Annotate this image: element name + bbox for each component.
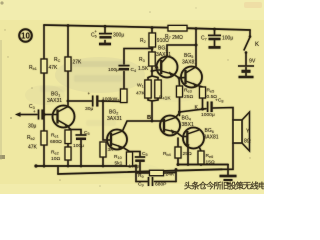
pot W1 47K xyxy=(145,80,151,98)
resistor R7 2M horizontal xyxy=(168,25,187,31)
resistor Re3 25 xyxy=(177,86,183,97)
resistor Rb1 47K xyxy=(41,59,47,73)
svg-text:680Ω: 680Ω xyxy=(50,139,62,145)
resistor R5 3K xyxy=(100,142,106,157)
capacitor C3 30u input xyxy=(39,110,43,120)
wire R5 to bus1 xyxy=(102,157,104,166)
wire Wout2 xyxy=(178,164,228,166)
svg-text:25Ω: 25Ω xyxy=(183,151,192,157)
dark corner speck xyxy=(0,155,5,159)
wire C7 stub xyxy=(214,29,216,35)
svg-text:25Ω: 25Ω xyxy=(184,94,193,100)
svg-text:100μ: 100μ xyxy=(73,143,84,149)
wire ground stub xyxy=(227,165,229,176)
paper background xyxy=(0,0,264,194)
capacitor C7 100u xyxy=(208,35,221,47)
wire Rc column x=68 xyxy=(67,26,69,57)
wire BG1 emitter xyxy=(68,126,70,130)
resistor Rb4 25 xyxy=(175,147,181,158)
wire BG3 emitter to BG5 base xyxy=(174,75,179,79)
svg-text:30μ: 30μ xyxy=(28,124,37,130)
svg-text:K: K xyxy=(195,105,199,111)
paper stains xyxy=(55,57,145,93)
scan speckles xyxy=(4,7,250,187)
wire Rb4 xyxy=(177,138,179,147)
wire A branch split W1 R4 xyxy=(148,76,152,80)
wire battery top xyxy=(245,53,247,66)
svg-text:3AX31: 3AX31 xyxy=(47,98,62,104)
wire BG3 base stub xyxy=(152,70,157,71)
resistor R3 1.5K xyxy=(149,52,155,66)
svg-text:47K: 47K xyxy=(136,91,145,97)
wire C4 to pot W2 xyxy=(123,72,125,90)
svg-text:15Ω: 15Ω xyxy=(206,160,215,166)
resistor R9 24K horizontal feedback xyxy=(150,170,164,175)
svg-text:3AX81: 3AX81 xyxy=(204,135,219,141)
wire pot W2 to HW1 xyxy=(123,101,125,104)
transistor BG6 xyxy=(183,128,204,149)
svg-text:10: 10 xyxy=(21,32,30,41)
svg-text:3AX81: 3AX81 xyxy=(182,60,197,66)
transistor BG5 xyxy=(181,67,202,88)
wire input xyxy=(20,114,37,116)
svg-text:K: K xyxy=(255,42,259,48)
svg-text:R7 2MΩ: R7 2MΩ xyxy=(165,34,183,41)
wire Re3 bottom to K node xyxy=(179,97,181,116)
wire BG2 emitter xyxy=(123,148,130,153)
resistor Re1 680 xyxy=(65,130,71,144)
wire HW1 collector BG1 to W2 xyxy=(68,100,92,102)
capacitor C8 1000u output xyxy=(208,102,212,113)
wire C6 stub xyxy=(104,26,106,33)
wire bus1 xyxy=(36,165,136,167)
ground xyxy=(220,176,237,184)
wire BG3 collector to rail drop xyxy=(167,45,196,57)
svg-text:100μ: 100μ xyxy=(222,36,233,42)
show-through smudges xyxy=(40,61,124,126)
svg-text:R41K: R41K xyxy=(159,95,171,102)
circled 10 figure number xyxy=(19,29,32,42)
svg-text:100μ: 100μ xyxy=(129,164,140,170)
resistor Rb2 47K xyxy=(41,131,47,145)
wire emitter node to C5 xyxy=(70,130,81,135)
speaker Y 8ohm xyxy=(233,120,242,143)
wire top rail xyxy=(44,25,168,28)
svg-text:头条仓今所旧投策无线电: 头条仓今所旧投策无线电 xyxy=(184,180,264,190)
svg-text:3AX31: 3AX31 xyxy=(107,116,122,122)
svg-text:680P: 680P xyxy=(155,182,166,188)
wire BG6 emitter down xyxy=(187,148,189,165)
svg-text:10Ω: 10Ω xyxy=(51,156,60,162)
wire bus1-R9 loop left stub xyxy=(135,166,137,182)
wire BG4 collector join xyxy=(176,113,180,118)
capacitor C4 100u xyxy=(119,66,130,70)
svg-text:+: + xyxy=(33,109,36,114)
svg-text:1.5K: 1.5K xyxy=(138,66,149,72)
capacitor C6 300u xyxy=(99,34,112,44)
switch K xyxy=(244,37,250,51)
svg-text:30μ: 30μ xyxy=(85,106,93,112)
capacitor C9 680P feedback xyxy=(149,177,153,186)
svg-text:8Ω: 8Ω xyxy=(244,139,251,145)
transistor BG3 xyxy=(157,57,178,78)
wire B line BG2 collector to BG4 base xyxy=(123,121,164,131)
transistor BG4 xyxy=(160,116,180,136)
wire rail drop to BG5 x=196 xyxy=(195,29,197,46)
svg-text:100kW2: 100kW2 xyxy=(102,97,119,103)
wire speaker column xyxy=(228,143,233,169)
svg-text:5k1: 5k1 xyxy=(115,161,123,167)
svg-text:300μ: 300μ xyxy=(113,33,124,39)
wire Re3 top xyxy=(178,78,181,86)
wire K output rail xyxy=(180,109,207,112)
resistor Re6 15 xyxy=(198,151,204,164)
wire BG4 emitter to BG6 base xyxy=(176,132,187,137)
svg-text:9V: 9V xyxy=(249,59,256,65)
resistor R2 910 xyxy=(149,33,156,47)
transistor BG2 xyxy=(107,130,127,150)
wire BG6 collector to Re6 xyxy=(199,147,201,152)
wire C5b branch xyxy=(130,152,141,157)
svg-text:3AX31: 3AX31 xyxy=(156,52,171,58)
pot W2 100K volume xyxy=(121,89,128,103)
svg-text:Y: Y xyxy=(246,129,250,135)
wire switch drop xyxy=(249,30,251,37)
wire BG5 emitter to Re5 xyxy=(198,86,203,88)
capacitor 30u interstage xyxy=(93,96,98,107)
svg-text:47K: 47K xyxy=(28,145,38,151)
wire HW0 divider to C4 xyxy=(124,49,152,65)
resistor Re5 0.5 xyxy=(200,87,206,98)
svg-text:24K: 24K xyxy=(166,172,175,178)
resistor R4 1K xyxy=(155,80,161,98)
svg-text:3K: 3K xyxy=(108,147,115,153)
svg-text:1000μ: 1000μ xyxy=(201,112,215,118)
svg-text:B: B xyxy=(147,115,151,121)
svg-text:47K: 47K xyxy=(49,65,59,71)
capacitor C5 100u xyxy=(76,135,87,139)
resistor Rc 27K xyxy=(65,57,71,71)
wire bus2 xyxy=(58,169,222,174)
svg-text:+: + xyxy=(88,91,91,96)
input arrow terminal xyxy=(15,112,21,116)
wire Re5 to K wire xyxy=(202,98,204,109)
resistor R10 5k1 emitter BG2 xyxy=(127,152,133,166)
resistor Re2 10 xyxy=(65,147,71,160)
wire emitter res to bus1 xyxy=(129,165,131,167)
capacitor C5b 100u xyxy=(135,157,145,161)
wire drop to BG2 base x=103 xyxy=(103,101,111,140)
svg-text:100μ: 100μ xyxy=(108,67,119,73)
svg-text:27K: 27K xyxy=(73,60,83,66)
wire R2 R3 column x=152 xyxy=(151,28,153,33)
red smudge top right xyxy=(244,2,262,8)
svg-text:+: + xyxy=(94,29,97,34)
wire left column x=44 xyxy=(43,25,45,59)
transistor BG1 xyxy=(53,106,75,128)
